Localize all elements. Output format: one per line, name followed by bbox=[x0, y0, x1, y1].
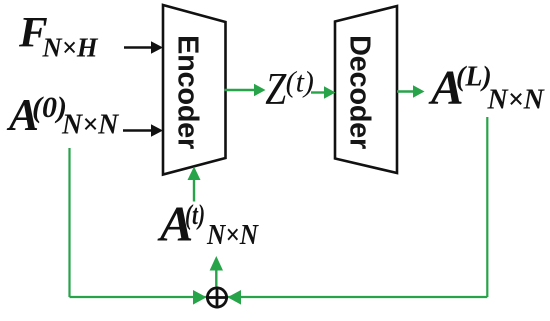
encoder block bbox=[163, 5, 226, 175]
wire arrow encoder to Z (green) bbox=[225, 84, 266, 96]
label A(0) NxN bbox=[6, 90, 120, 141]
svg-text:Decoder: Decoder bbox=[344, 35, 376, 149]
label F NxH bbox=[18, 10, 98, 63]
wire arrow decoder to A(L) (green) bbox=[397, 85, 425, 97]
svg-text:N×N: N×N bbox=[487, 85, 546, 116]
svg-text:(L): (L) bbox=[456, 62, 492, 93]
wire arrow A(t) to encoder bottom (green) bbox=[188, 167, 201, 202]
label A(t) NxN bbox=[157, 196, 260, 252]
decoder block bbox=[335, 6, 397, 173]
svg-text:(t): (t) bbox=[185, 199, 205, 231]
wire right feedback vertical (green) bbox=[486, 117, 488, 297]
label A(L) NxN bbox=[428, 60, 546, 116]
svg-text:N×N: N×N bbox=[61, 110, 120, 141]
adder circle-plus bbox=[206, 287, 228, 309]
wire arrow adder to A(t) (green) bbox=[210, 256, 223, 287]
svg-text:Z: Z bbox=[265, 64, 287, 114]
wire bottom feedback horizontal (green) bbox=[70, 296, 488, 298]
wire arrow F to encoder bbox=[124, 41, 163, 53]
arrowhead into adder from right (green) bbox=[228, 290, 242, 305]
svg-text:(t): (t) bbox=[286, 65, 314, 98]
wire arrow Z to decoder (green) bbox=[311, 86, 336, 98]
arrowhead into adder from left (green) bbox=[193, 290, 207, 305]
svg-text:N×H: N×H bbox=[42, 33, 99, 63]
label Z(t) bbox=[265, 64, 314, 114]
wire left feedback vertical (green) bbox=[68, 148, 70, 297]
wire arrow A(0) to encoder bbox=[123, 124, 163, 136]
svg-text:Encoder: Encoder bbox=[172, 35, 204, 149]
svg-text:N×N: N×N bbox=[206, 220, 260, 251]
